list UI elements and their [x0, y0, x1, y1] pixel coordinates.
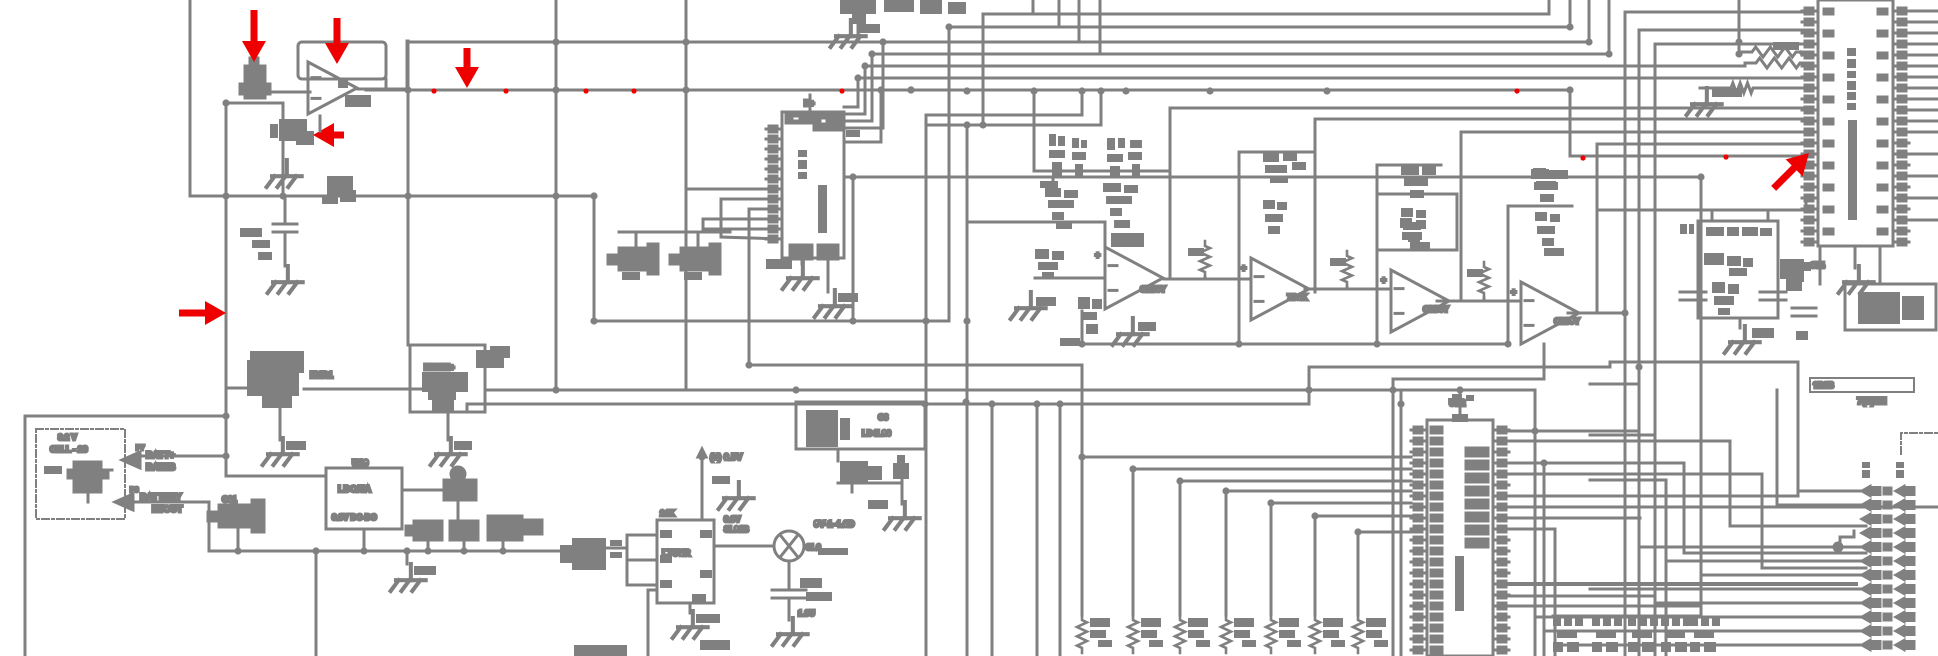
- dashed box corner: [1901, 433, 1938, 454]
- IC U5 pin labels left: [1824, 9, 1833, 234]
- ground chain1: [1011, 292, 1046, 319]
- resistor R20: [1748, 47, 1800, 57]
- wire V702 +6.5V: [701, 457, 704, 520]
- label U5 vertical: [1847, 48, 1856, 110]
- wire H119: [1315, 118, 1802, 121]
- wire H379: [1393, 378, 1544, 381]
- wire H365 rail: [749, 364, 1082, 367]
- red junction dot x434: [431, 88, 436, 93]
- wire to Q2: [226, 387, 250, 390]
- top edge parts: [884, 0, 966, 14]
- wire junction: [590, 317, 597, 324]
- capacitor C8: [806, 410, 850, 447]
- wire V556: [555, 0, 558, 390]
- wire V853: [852, 177, 855, 321]
- red junction dot x1517: [1514, 88, 1519, 93]
- label C77: [712, 476, 730, 484]
- box small: [1810, 378, 1914, 392]
- wire H44 to U5: [1655, 43, 1802, 46]
- wire V686: [685, 0, 688, 390]
- connector J6: [1690, 616, 1720, 652]
- wire junction: [552, 192, 559, 199]
- capacitor C9: [273, 224, 297, 232]
- wire junction: [1735, 38, 1742, 45]
- IC U12 right pins: [1493, 427, 1509, 653]
- connector row pin R6: [1896, 571, 1914, 580]
- connector J5: [1661, 616, 1691, 652]
- wire junction: [1540, 459, 1547, 466]
- wire row575: [1701, 574, 1862, 577]
- wire U6 gnd: [689, 603, 692, 613]
- wire V865: [864, 66, 867, 114]
- wire H54 bus: [872, 53, 1609, 56]
- op-amp U3B: [1251, 258, 1309, 320]
- wire V1100: [1099, 0, 1102, 54]
- wire U6 pin2: [627, 559, 657, 562]
- IC U6 pin pads: [660, 530, 712, 602]
- wire hook pin: [844, 106, 858, 109]
- connector J8 inner cluster: [1727, 256, 1753, 276]
- wire bus6 to U12: [1358, 531, 1411, 534]
- wire H144: [1597, 143, 1802, 146]
- red junction dot x1210: [1207, 88, 1212, 93]
- wire junction: [963, 87, 970, 94]
- wire: [406, 551, 409, 564]
- wire to U5 pin: [1806, 197, 1818, 200]
- label RN2: [1188, 618, 1208, 638]
- ground small: [719, 482, 754, 509]
- resistor R31: [1072, 138, 1087, 176]
- wire Q1 to U1: [264, 91, 310, 94]
- wire: [1204, 277, 1207, 279]
- ground D cluster: [885, 502, 920, 529]
- arrow +6.5V: [698, 449, 706, 457]
- svg-text:CR59Y: CR59Y: [1554, 317, 1580, 326]
- wire jog to U5 pin: [1805, 198, 1808, 210]
- resistor R38: [1479, 262, 1489, 298]
- wire junction: [962, 398, 969, 405]
- wire V949: [948, 27, 951, 321]
- wire V1079: [1078, 0, 1081, 42]
- ground under U10: [783, 262, 818, 289]
- label near Q4: [1060, 338, 1080, 346]
- wire H78 bus: [858, 77, 1802, 80]
- wire V983 step: [982, 14, 985, 125]
- wire H483: [838, 482, 902, 485]
- svg-text:+: +: [1241, 263, 1246, 273]
- wire: [851, 483, 854, 492]
- wire B to C: [1305, 288, 1391, 291]
- label C40 value: [1040, 181, 1058, 188]
- wire H66 bus: [865, 65, 1745, 68]
- label RN4: [1279, 618, 1299, 638]
- wire hook pin: [749, 208, 771, 211]
- label bar: [818, 548, 848, 555]
- svg-text:(+) 6.5V: (+) 6.5V: [710, 452, 742, 462]
- resistor RN3: [1221, 615, 1231, 653]
- wire V1570: [1569, 90, 1572, 156]
- label B-45/7T: [766, 259, 792, 269]
- wire junction: [849, 317, 856, 324]
- wire: [1800, 52, 1802, 55]
- wire D out: [1568, 312, 1625, 315]
- connector J8 box: [1698, 221, 1778, 318]
- wire jog: [702, 219, 705, 229]
- svg-text:IN/OUT: IN/OUT: [152, 504, 183, 514]
- wire bus5 to U12: [1315, 515, 1411, 518]
- wire H384: [1590, 383, 1639, 386]
- wire junction: [222, 192, 229, 199]
- connector row pin L2: [1862, 515, 1880, 524]
- wire battery plus: [140, 455, 226, 458]
- wire V1377: [1376, 165, 1379, 344]
- wire hook pin: [721, 198, 771, 201]
- wire gnd to R22: [1700, 87, 1727, 90]
- wire H171: [1034, 170, 1170, 173]
- wire junction: [1735, 50, 1742, 57]
- wire bus1 down: [1132, 469, 1135, 615]
- wire jog367: [1609, 362, 1612, 367]
- wire Q5 down: [857, 22, 860, 41]
- trimmer VR1: [327, 176, 356, 202]
- wire box1 to output: [385, 79, 388, 90]
- diode D2: [476, 346, 510, 368]
- wire battery stub2: [87, 492, 90, 502]
- jog dot: [1834, 543, 1842, 551]
- wire H30 to U5: [1639, 29, 1802, 32]
- wire: [697, 232, 700, 248]
- connector J3: [1592, 616, 1622, 652]
- wire bus3 down: [1225, 491, 1228, 615]
- wire H210: [1597, 209, 1806, 212]
- wire: [1797, 491, 1800, 496]
- wire A to B: [1164, 278, 1251, 281]
- svg-text:IB/R1: IB/R1: [310, 370, 333, 380]
- label RN0: [1090, 618, 1110, 638]
- wire fb C top: [1377, 164, 1441, 167]
- wire junction: [1635, 363, 1642, 370]
- red junction dot x586: [583, 88, 588, 93]
- label C9 1K: [240, 228, 272, 260]
- wire hook pin: [721, 237, 782, 239]
- diode D7: [893, 455, 909, 479]
- capacitor C63: [406, 521, 442, 540]
- wire H491: [1798, 490, 1866, 493]
- wire V1701: [1700, 177, 1703, 616]
- svg-text:P8: P8: [130, 487, 139, 494]
- wire bus5 down: [1314, 516, 1317, 615]
- wire row645: [1555, 644, 1862, 647]
- wire junction: [682, 38, 689, 45]
- wire bus0 down: [1081, 457, 1084, 615]
- IC U12 top pad: [1452, 414, 1468, 422]
- wire U12fan2: [1509, 440, 1730, 443]
- wire junction: [312, 547, 319, 554]
- red junction dot x506: [503, 88, 508, 93]
- wire V594: [593, 196, 596, 321]
- wire junction: [460, 547, 467, 554]
- wire bus4 to U12: [1271, 502, 1411, 505]
- wire row589: [1590, 588, 1862, 591]
- wire V1535: [1534, 390, 1537, 656]
- wire U19 to D5: [402, 489, 444, 492]
- transistor Q3: [774, 531, 804, 561]
- wire H103: [226, 102, 283, 105]
- red junction dot x1327: [1324, 88, 1329, 93]
- capacitor C72: [1680, 292, 1706, 300]
- wire junction: [988, 400, 995, 407]
- capacitor C30: [608, 244, 658, 274]
- wire H553: [1684, 552, 1866, 555]
- wire H344 rail: [1082, 343, 1508, 346]
- wire junction: [1373, 340, 1380, 347]
- wire V1034: [1033, 91, 1036, 171]
- wire U12fan9: [1509, 595, 1653, 598]
- wire V1730: [1729, 441, 1732, 526]
- wire: [1803, 63, 1806, 66]
- wire H42 bus: [407, 41, 1589, 44]
- wire junction: [698, 453, 705, 460]
- wire C61 down: [237, 527, 240, 551]
- wire C63 down: [427, 540, 430, 551]
- svg-text:C8: C8: [878, 413, 889, 422]
- capacitor C43: [1263, 152, 1306, 183]
- label B6: [1896, 462, 1904, 478]
- label RN5: [1323, 618, 1343, 638]
- label caps C30 C31: [622, 272, 702, 280]
- svg-text:C61: C61: [222, 495, 237, 504]
- wire V749b: [748, 209, 751, 365]
- transistor Q2 IB/R1: [247, 351, 304, 408]
- svg-text:SL91B: SL91B: [724, 525, 749, 534]
- resistor R21: [1752, 58, 1804, 68]
- wire H584 heavy: [1509, 582, 1856, 586]
- connector pin P8: [115, 494, 133, 510]
- wire junction: [1456, 386, 1463, 393]
- wire U10 pin down: [827, 258, 830, 292]
- IC U7: [560, 538, 606, 570]
- wire H568: [1762, 567, 1866, 570]
- svg-text:CR58Y: CR58Y: [1423, 305, 1449, 314]
- wire V1170: [1169, 108, 1172, 279]
- wire junction: [1097, 87, 1104, 94]
- label 01: [1680, 224, 1694, 234]
- resistor R40: [1535, 212, 1564, 256]
- wire H505: [1777, 504, 1866, 507]
- wire V25: [24, 416, 27, 656]
- wire U2 out: [485, 389, 556, 392]
- wire V1625: [1624, 12, 1627, 656]
- connector row pin L3: [1862, 529, 1880, 538]
- wire junction: [1078, 453, 1085, 460]
- wire junction: [552, 386, 559, 393]
- wire junction: [868, 50, 875, 57]
- wire V872: [871, 54, 874, 121]
- svg-text:LDO/5A: LDO/5A: [338, 484, 372, 494]
- wire junction: [1030, 87, 1037, 94]
- wire bus2 to U12: [1180, 480, 1411, 483]
- label C70+: [800, 578, 832, 601]
- connector row pin R1: [1896, 501, 1914, 510]
- IC U12 left pins: [1411, 427, 1427, 653]
- IC U10 internal bar: [818, 185, 827, 233]
- connector row pin R0: [1896, 487, 1914, 496]
- IC U10 top-left pad: [786, 112, 814, 123]
- wire junction: [854, 74, 861, 81]
- IC U5 body: [1818, 0, 1893, 246]
- wire junction: [1206, 87, 1213, 94]
- wire V1461: [1460, 132, 1463, 298]
- wire junction: [879, 38, 886, 45]
- dashed battery box: [36, 429, 125, 519]
- wire V967: [966, 125, 969, 656]
- wire Q2 to ground: [279, 407, 282, 440]
- wire H12 to U5: [1625, 11, 1802, 14]
- label arr: [868, 500, 888, 509]
- wire V881: [880, 90, 883, 142]
- wire bus6 down: [1357, 532, 1360, 615]
- wire junction: [222, 99, 229, 106]
- connector row pin R2: [1896, 515, 1914, 524]
- wire U10 pin right: [844, 141, 881, 144]
- wire junction: [945, 23, 952, 30]
- IC U12 body: [1427, 420, 1493, 656]
- label 7R60: [1036, 297, 1056, 306]
- svg-text:P7: P7: [136, 445, 145, 452]
- svg-text:7B6K: 7B6K: [1287, 293, 1308, 302]
- red arrow 3 (down): [455, 48, 479, 88]
- resistor R4 at U1 output: [338, 80, 371, 107]
- wire H367 rail: [1309, 366, 1610, 369]
- capacitor C40: [1045, 188, 1078, 229]
- resistor RN0: [1077, 615, 1087, 653]
- connector row pin L4: [1862, 543, 1880, 552]
- wire to C9: [284, 196, 287, 222]
- wire junction: [404, 192, 411, 199]
- jog wire: [1840, 531, 1854, 545]
- wire junction: [1397, 400, 1404, 407]
- red junction dot x1126: [1123, 88, 1128, 93]
- svg-text:9V-1-4.6D: 9V-1-4.6D: [814, 519, 855, 529]
- svg-text:8.2 V: 8.2 V: [58, 433, 77, 442]
- wire V1060: [1059, 404, 1062, 656]
- wire junction: [1323, 87, 1330, 94]
- wire V1393: [1392, 379, 1395, 656]
- svg-text:ERMIN+: ERMIN+: [424, 363, 455, 372]
- wire box riser 1: [1711, 210, 1714, 221]
- wire C64 down: [463, 540, 466, 551]
- wire junction: [1621, 309, 1628, 316]
- IC U10 left pins: [766, 126, 782, 242]
- connector row pin R5: [1896, 557, 1914, 566]
- wire V1555: [1554, 529, 1557, 656]
- transistor Q5: [840, 0, 876, 24]
- resistor R39: [1401, 208, 1430, 249]
- connector J2: [1553, 616, 1583, 652]
- connector row pin R8: [1896, 599, 1914, 608]
- IC U12 internal pads: [1466, 448, 1488, 547]
- wire junction: [1566, 86, 1573, 93]
- capacitor C50: [1780, 259, 1804, 291]
- wire U12fan8: [1509, 528, 1555, 531]
- wire row631: [1544, 630, 1862, 633]
- resistor R32: [1107, 138, 1142, 178]
- wire V467: [466, 404, 469, 412]
- label battery cell: [44, 466, 62, 474]
- wire V209: [208, 502, 211, 551]
- wire V1508: [1507, 206, 1510, 344]
- wire junction: [1078, 340, 1085, 347]
- IC U5 internal bar: [1848, 120, 1857, 220]
- wire junction: [222, 452, 229, 459]
- box MAX: [1845, 284, 1936, 330]
- wire junction: [979, 121, 986, 128]
- red junction dot x842: [839, 88, 844, 93]
- wire junction: [921, 400, 928, 407]
- op-amp U3A: [1105, 247, 1163, 309]
- IC U12 pin labels: [1431, 427, 1442, 653]
- wire hook pin: [844, 127, 883, 130]
- wire junction: [1504, 340, 1511, 347]
- label 7RD: [838, 293, 858, 302]
- box crystal: [1377, 194, 1457, 250]
- label VR1: [322, 197, 338, 204]
- wire net V190: [189, 0, 192, 196]
- wire hook pin: [844, 113, 865, 116]
- svg-text:?R0B: ?R0B: [1813, 381, 1834, 390]
- wire U12fan3: [1509, 462, 1684, 465]
- wire H404 rail: [467, 403, 1309, 406]
- wire junction: [1389, 386, 1396, 393]
- resistor R37: [1263, 200, 1287, 234]
- connector row pin L10: [1862, 627, 1880, 636]
- connector row pin L8: [1862, 599, 1880, 608]
- capacitor C70: [772, 590, 806, 598]
- wire junction: [1311, 512, 1318, 519]
- wire U12fan7: [1509, 517, 1640, 520]
- resistor RN2: [1175, 615, 1185, 653]
- wire V858: [857, 78, 860, 107]
- wires U5 right to edge: [1908, 11, 1938, 220]
- wire H222: [967, 221, 1105, 224]
- wire junction: [499, 547, 506, 554]
- ground under U6: [673, 611, 708, 638]
- wire U12fan10: [1509, 605, 1701, 608]
- wire: [648, 589, 657, 592]
- ground chain2: [1113, 318, 1148, 345]
- wire V408: [407, 41, 410, 345]
- wire V1609 up: [1608, 0, 1611, 54]
- wire: [1346, 287, 1349, 289]
- connector row pin L5: [1862, 557, 1880, 566]
- wire U1 output: [358, 88, 407, 91]
- wire junction: [963, 317, 970, 324]
- wire V1798: [1797, 403, 1800, 491]
- wire junction: [360, 547, 367, 554]
- op-amp U3D: [1521, 282, 1579, 344]
- wire U10 gnd: [801, 258, 804, 264]
- connector row pin L11: [1862, 641, 1880, 650]
- wire H108: [1170, 107, 1802, 110]
- wire V1082 upper: [1081, 365, 1084, 457]
- label U7 pins: [610, 540, 622, 558]
- wire R21 left: [1745, 62, 1752, 65]
- wire V1033: [1032, 0, 1035, 14]
- label U10 right pin: [846, 130, 860, 137]
- wire V1597: [1596, 144, 1599, 310]
- wire V721: [720, 199, 723, 237]
- IC U10 top-right pad: [814, 114, 843, 130]
